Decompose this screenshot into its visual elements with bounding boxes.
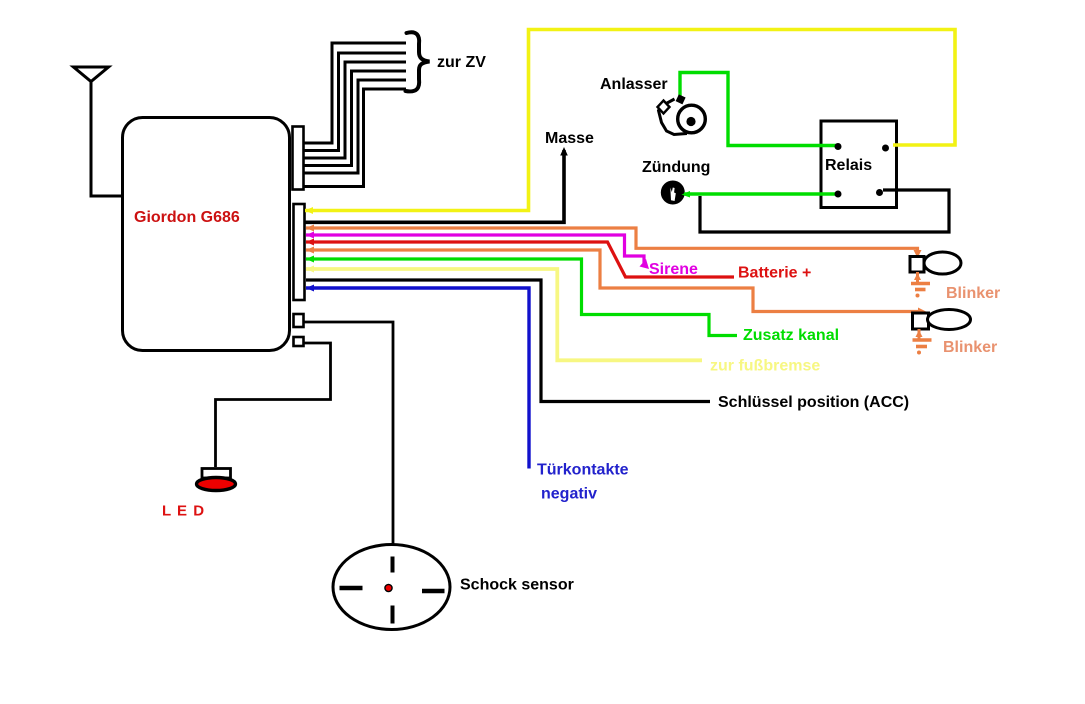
connector stub CN3: [294, 314, 304, 327]
relay pin 3: [835, 191, 842, 198]
svg-text:Anlasser: Anlasser: [600, 76, 668, 93]
antenna: [74, 67, 125, 196]
wire black to LED: [216, 343, 331, 467]
wire green Anlasser to Relais: [680, 73, 837, 146]
relay pin 4: [876, 189, 883, 196]
LED: [197, 469, 236, 491]
svg-text:Relais: Relais: [825, 157, 872, 174]
relay pin 1: [835, 143, 842, 150]
svg-text:Schock sensor: Schock sensor: [460, 577, 574, 594]
wire black Schluessel position: [306, 280, 710, 402]
wire ZV 3: [303, 62, 406, 158]
wire black to shock sensor: [304, 322, 393, 546]
arrowhead orange2 at connector: [306, 247, 314, 254]
arrowhead orange2 at Blinker 2: [918, 308, 926, 316]
wire orange to Blinker 1: [306, 228, 918, 254]
arrowhead yellow at connector: [305, 207, 313, 214]
ground symbol Blinker 2: [913, 329, 932, 355]
starter motor Anlasser: [658, 94, 706, 134]
svg-text:zur ZV: zur ZV: [437, 54, 486, 71]
connector block CN2: [294, 204, 305, 300]
arrowhead green at ignition: [682, 191, 691, 198]
wire pale yellow zur fussbremse: [306, 269, 702, 360]
relay pin 2: [882, 145, 889, 152]
svg-text:Zusatz kanal: Zusatz kanal: [743, 327, 839, 344]
svg-text:zur fußbremse: zur fußbremse: [710, 358, 820, 375]
arrowhead orange at connector: [306, 225, 314, 232]
wire green Zuendung to Relais: [684, 192, 837, 195]
wire red Batterie: [306, 242, 734, 277]
wire black Masse: [305, 150, 564, 222]
arrowhead red at connector: [306, 239, 314, 246]
arrowhead green at connector: [306, 256, 314, 263]
svg-text:Blinker: Blinker: [943, 339, 997, 356]
arrowhead orange into Blinker 1: [914, 250, 922, 258]
svg-text:Batterie +: Batterie +: [738, 265, 811, 282]
wire green Zusatz kanal: [306, 259, 737, 336]
lamp Blinker 1: [910, 252, 961, 274]
wire black relay coil loop: [700, 190, 949, 232]
shock sensor: [333, 545, 450, 630]
brace for ZV bundle: [406, 32, 430, 91]
svg-text:Zündung: Zündung: [642, 159, 710, 176]
wire magenta Sirene: [306, 235, 644, 263]
ground symbol Blinker 1: [911, 272, 930, 298]
svg-text:Giordon G686: Giordon G686: [134, 209, 240, 226]
connector stub CN4: [294, 337, 304, 346]
wire ZV 4: [303, 71, 406, 166]
relay Relais: [821, 121, 897, 208]
wire orange to Blinker 2: [306, 250, 919, 312]
connector block CN1: [293, 127, 304, 190]
wire ZV 2: [303, 53, 406, 151]
arrowhead magenta at Sirene: [640, 259, 650, 269]
svg-text:L E D: L E D: [162, 503, 205, 520]
wire ZV 6: [303, 89, 406, 187]
ignition switch Zuendung: [661, 181, 685, 205]
svg-text:Schlüssel position (ACC): Schlüssel position (ACC): [718, 394, 909, 411]
wire blue Tuerkontakte: [306, 288, 529, 469]
wire ZV 5: [303, 80, 406, 173]
svg-text:Masse: Masse: [545, 130, 594, 147]
alarm unit Giordon G686: [123, 118, 290, 351]
svg-text:Türkontakte: Türkontakte: [537, 462, 629, 479]
arrowhead blue at connector: [306, 285, 314, 292]
arrowhead pale yellow at connector: [306, 266, 314, 273]
wire ZV 1: [303, 43, 406, 143]
arrowhead magenta at connector: [306, 232, 314, 239]
wire yellow plus supply loop: [305, 30, 955, 211]
svg-text:Blinker: Blinker: [946, 285, 1000, 302]
svg-text:negativ: negativ: [541, 486, 597, 503]
lamp Blinker 2: [913, 310, 971, 330]
